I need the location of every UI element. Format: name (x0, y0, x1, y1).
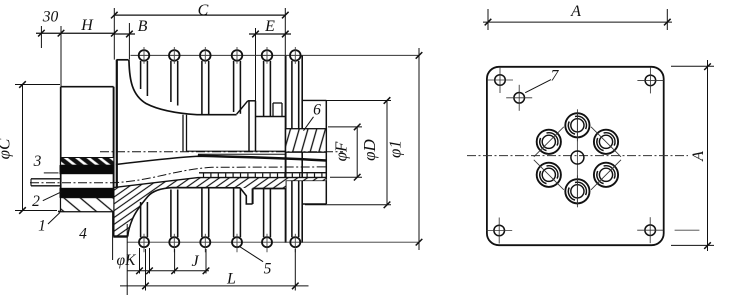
svg-text:E: E (264, 18, 275, 35)
main axis centerline (100, 151, 343, 153)
cable upper sheath (116, 156, 326, 164)
neck ring (248, 100, 256, 102)
dimension A right (707, 60, 709, 251)
centerline segment right of plate (675, 229, 700, 231)
dimension A top (483, 21, 672, 23)
cable entry hole 1 (565, 113, 589, 137)
cable tail conductor (31, 178, 61, 180)
stud top 1 (139, 50, 150, 61)
stud top 2 (169, 50, 180, 61)
small block on shelf (273, 102, 282, 104)
shelf between neck and plate (256, 116, 286, 118)
svg-text:B: B (138, 18, 148, 35)
cable entry hole 6 (594, 130, 618, 154)
svg-text:C: C (198, 2, 209, 19)
dimension phiK and J (127, 270, 209, 272)
cable lower sheath line (115, 177, 327, 187)
svg-text:4: 4 (79, 226, 87, 243)
svg-text:φC: φC (0, 138, 14, 159)
dimension phiF (356, 127, 358, 177)
flange plate outline square (487, 67, 664, 245)
svg-text:φ1: φ1 (386, 140, 405, 158)
bell outer curve top (129, 62, 237, 115)
leader line part 4 (112, 212, 114, 261)
dimension E (249, 33, 291, 35)
svg-text:φK: φK (117, 252, 137, 269)
neck chamfer diagonal (237, 101, 248, 114)
dimension phiC (22, 85, 24, 211)
stud bottom 5 (263, 189, 265, 238)
svg-text:φF: φF (332, 141, 351, 161)
svg-text:H: H (80, 17, 94, 34)
packing block lower hatched (61, 198, 114, 212)
body lower wall hatched section (115, 177, 327, 236)
stud bottom 3 (201, 187, 203, 237)
seal ring 2 black lower (60, 188, 115, 198)
stud top 3 (200, 50, 211, 61)
svg-text:3: 3 (33, 153, 42, 170)
stud bottom 6 (291, 180, 293, 237)
dimension B (114, 33, 135, 35)
svg-text:L: L (226, 271, 236, 288)
stud top 5 (262, 50, 273, 61)
stud bottom 4 (233, 188, 235, 237)
gland nut body outline (61, 86, 114, 88)
svg-text:2: 2 (32, 193, 40, 210)
cable entry hole 3 (537, 163, 561, 187)
corner bolt hole 1 (495, 75, 506, 86)
dimension 30 (36, 32, 114, 34)
corner bolt hole 4 (645, 225, 656, 236)
boss on plate right face (302, 99, 326, 101)
dimension C (flange length) (114, 14, 285, 16)
gland bushing 6 upper hatched (286, 129, 327, 153)
svg-text:A: A (570, 3, 581, 20)
svg-text:6: 6 (313, 102, 321, 119)
gland bushing lower edge (286, 179, 327, 181)
corner bolt hole 2 (645, 75, 656, 86)
dimension H (111, 30, 118, 37)
packing strip upper hatched (61, 158, 114, 166)
cable braid upper line (199, 172, 326, 174)
body lower outline (128, 188, 240, 237)
cable centerline dashdot (30, 167, 326, 183)
flange plate edge-on (285, 55, 287, 243)
cable entry hole 2 (537, 130, 561, 154)
plate horizontal centerline (467, 155, 688, 157)
inner step ring (182, 115, 184, 152)
dimension phiD (386, 101, 388, 205)
svg-text:J: J (191, 253, 199, 270)
corner bolt hole 3 (494, 225, 505, 236)
seal ring 3 black upper (60, 165, 115, 174)
center pilot hole (571, 151, 584, 164)
label 7 with leader (525, 80, 551, 93)
plate vertical centerline (576, 112, 578, 205)
flange top edge line (131, 54, 420, 56)
svg-text:30: 30 (42, 9, 59, 26)
stud bottom 2 (170, 190, 172, 238)
svg-text:7: 7 (551, 68, 560, 85)
svg-text:1: 1 (38, 218, 46, 235)
flange bottom edge line (127, 241, 419, 243)
dimension phi1 (418, 48, 420, 250)
bottom extension lines (139, 248, 141, 274)
bell mounting ring (116, 60, 118, 212)
svg-text:φD: φD (360, 138, 379, 160)
stud top 6 (290, 50, 301, 61)
svg-text:A: A (690, 151, 707, 162)
cable braid ticks (204, 173, 322, 177)
stud bottom 1 (140, 202, 142, 237)
svg-text:5: 5 (264, 261, 272, 278)
dimension L (120, 285, 309, 287)
stud top 4 (232, 50, 243, 61)
cable entry hole 4 (565, 179, 589, 203)
cable entry hole 5 (594, 163, 618, 187)
extension lines of top dimensions (40, 26, 42, 48)
hole 7 (514, 93, 525, 104)
